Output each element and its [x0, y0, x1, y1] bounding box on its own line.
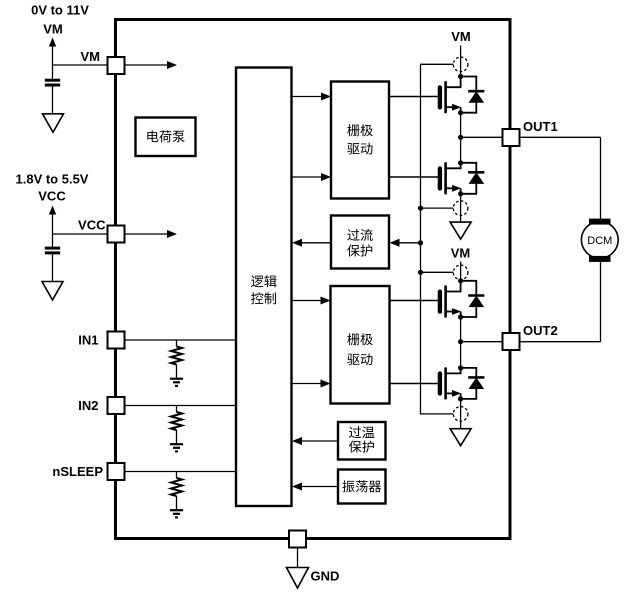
- svg-text:VM: VM: [43, 22, 63, 37]
- pin label IN1: [78, 333, 98, 348]
- pin label IN2: [78, 398, 98, 413]
- ground (power ground for C1): [43, 114, 64, 133]
- node: Q1 source: [458, 110, 463, 115]
- svg-text:nSLEEP: nSLEEP: [52, 464, 103, 479]
- supply arrow (VM rail, pointing up): [49, 38, 56, 66]
- wire Q4 source to ground (through drive bubble): [460, 399, 462, 429]
- signal: logic to gate drive 2 (low-side): [292, 380, 331, 388]
- capacitor C2 (VCC bypass): [45, 234, 60, 282]
- pin IN1: [108, 332, 125, 349]
- svg-text:VCC: VCC: [38, 189, 66, 204]
- body diode D1 (across Q1): [461, 77, 485, 113]
- svg-text:OUT1: OUT1: [523, 119, 558, 134]
- node: Q4 source: [458, 396, 463, 401]
- gate-drive bubble (dashed, bridge 1 low-side): [453, 201, 468, 216]
- pin label GND: [311, 569, 340, 584]
- block: gate drive 1 栅极驱动 (OUT1 half-bridge): [331, 82, 389, 199]
- wire VM to Q3 drain (through drive bubble): [460, 262, 462, 281]
- wire bus to bubble (bridge 2 high-side): [421, 271, 454, 273]
- bus: gate-drive / current-sense line: [421, 64, 454, 414]
- ground (GND, power ground symbol): [287, 568, 309, 589]
- svg-text:GND: GND: [311, 569, 340, 584]
- node: Q4 drain: [458, 365, 463, 370]
- gate-drive bubble (dashed, bridge 2 low-side): [453, 407, 468, 422]
- signal: overcurrent protection to logic: [292, 239, 331, 247]
- transistor Q4 (OUT2 low-side MOSFET): [390, 367, 462, 399]
- pin OUT2: [503, 333, 520, 350]
- svg-text:OUT2: OUT2: [523, 323, 558, 338]
- arrow VCC internal rail: [125, 230, 178, 238]
- wire OUT1 to motor: [600, 137, 602, 221]
- pin label nSLEEP: [52, 464, 103, 479]
- arrow VM internal rail: [125, 61, 178, 69]
- node OUT2 (half-bridge 2 output): [458, 339, 463, 344]
- pin VM: [108, 57, 125, 74]
- signal: overtemperature protection to logic: [292, 437, 338, 445]
- wire node OUT1 to pin OUT1 and motor: [461, 136, 601, 138]
- body diode D4 (across Q4): [461, 368, 485, 399]
- svg-text:VM: VM: [451, 246, 471, 261]
- node: Q1 drain: [458, 74, 463, 79]
- wire VCC supply to pin VCC: [53, 233, 108, 235]
- pin OUT1: [503, 129, 520, 146]
- node: bus junction at bridge-2 bubble: [418, 270, 423, 275]
- pin label VM: [81, 49, 101, 64]
- node: bus junction at bridge-1 bubble: [418, 206, 423, 211]
- block: gate drive 2 栅极驱动 (OUT2 half-bridge): [331, 286, 390, 404]
- pin VCC: [108, 226, 125, 243]
- motor M1 (DC motor DCM): [581, 219, 618, 262]
- wire VM to Q1 drain (through drive bubble): [460, 46, 462, 77]
- node: Q3 drain: [458, 278, 463, 283]
- net label VCC (external supply): [38, 189, 66, 204]
- wire node OUT1 down to Q2 drain: [460, 137, 462, 163]
- node OUT1 (half-bridge 1 output): [458, 135, 463, 140]
- wire GND pin to ground symbol: [297, 548, 299, 568]
- svg-text:IN1: IN1: [78, 333, 98, 348]
- node: Q3 source: [458, 314, 463, 319]
- node: Q2 source: [458, 191, 463, 196]
- pin nSLEEP: [108, 463, 125, 480]
- wire IN2 pin to logic control: [125, 405, 236, 407]
- pin label OUT1: [523, 119, 558, 134]
- signal: logic to gate drive 2 (high-side): [292, 297, 331, 305]
- block: overcurrent protection 过流保护: [331, 216, 389, 269]
- wire bus to bubble (bridge 1 low-side): [421, 207, 454, 209]
- resistor R2 (IN2 pulldown): [171, 406, 182, 445]
- net label VM (bridge 1): [451, 29, 471, 44]
- resistor R1 (IN1 pulldown): [171, 340, 182, 379]
- transistor Q3 (OUT2 high-side MOSFET): [390, 281, 462, 318]
- svg-text:VCC: VCC: [78, 218, 106, 233]
- wire motor to OUT2: [600, 258, 602, 342]
- transistor Q1 (OUT1 high-side MOSFET): [389, 77, 461, 114]
- pin label OUT2: [523, 323, 558, 338]
- supply arrow (VCC rail, pointing up): [49, 206, 56, 235]
- net label VM (external supply): [43, 22, 63, 37]
- svg-text:0V to 11V: 0V to 11V: [31, 3, 89, 18]
- svg-text:1.8V to 5.5V: 1.8V to 5.5V: [16, 172, 89, 187]
- transistor Q2 (OUT1 low-side MOSFET): [389, 162, 461, 194]
- supply range label "1.8V to 5.5V": [16, 172, 89, 187]
- ground (power ground, bridge 2): [450, 429, 471, 446]
- svg-text:VM: VM: [451, 29, 471, 44]
- wire IN1 pin to logic control: [125, 339, 236, 341]
- capacitor C1 (VM bypass): [45, 65, 60, 114]
- block: overtemperature protection 过温保护: [338, 422, 386, 460]
- wire Q2 source to ground (through drive bubble): [460, 194, 462, 222]
- pin IN2: [108, 397, 125, 414]
- device outline (motor-driver IC boundary): [116, 20, 511, 539]
- ground (signal ground for R2): [170, 444, 183, 451]
- wire Q1 source to node OUT1: [460, 113, 462, 138]
- pin label VCC: [78, 218, 106, 233]
- block: charge pump 电荷泵: [136, 118, 196, 157]
- signal: logic to gate drive 1 (low-side): [292, 173, 331, 181]
- wire Q3 source to node OUT2: [460, 317, 462, 342]
- signal: bus to overcurrent protection: [390, 239, 421, 247]
- supply range label "0V to 11V": [31, 3, 89, 18]
- gate-drive bubble (dashed, bridge 1 high-side): [453, 57, 468, 72]
- node: bus junction at overcurrent tap: [418, 240, 423, 245]
- resistor R3 (nSLEEP pulldown): [171, 472, 182, 511]
- wire nSLEEP pin to logic control: [125, 471, 236, 473]
- block: logic control 逻辑控制: [236, 68, 292, 507]
- svg-text:DCM: DCM: [587, 235, 612, 247]
- ground (signal ground for R3): [170, 510, 183, 517]
- gate-drive bubble (dashed, bridge 2 high-side): [453, 265, 468, 280]
- body diode D2 (across Q2): [461, 163, 485, 194]
- body diode D3 (across Q3): [461, 281, 485, 317]
- wire node OUT2 to pin OUT2 and motor: [461, 341, 601, 343]
- wire node OUT2 down to Q4 drain: [460, 342, 462, 368]
- ground (power ground, bridge 1): [450, 222, 471, 239]
- node: Q2 drain: [458, 160, 463, 165]
- signal: logic to gate drive 1 (high-side): [292, 93, 331, 101]
- ground (signal ground for R1): [170, 379, 183, 386]
- block: oscillator 振荡器: [338, 470, 386, 504]
- svg-text:IN2: IN2: [78, 398, 98, 413]
- wire VM supply to pin VM: [53, 64, 108, 66]
- svg-text:VM: VM: [81, 49, 101, 64]
- pin GND: [289, 531, 306, 548]
- signal: oscillator to logic: [292, 483, 338, 491]
- net label VM (bridge 2): [451, 246, 471, 261]
- ground (power ground for C2): [42, 282, 63, 301]
